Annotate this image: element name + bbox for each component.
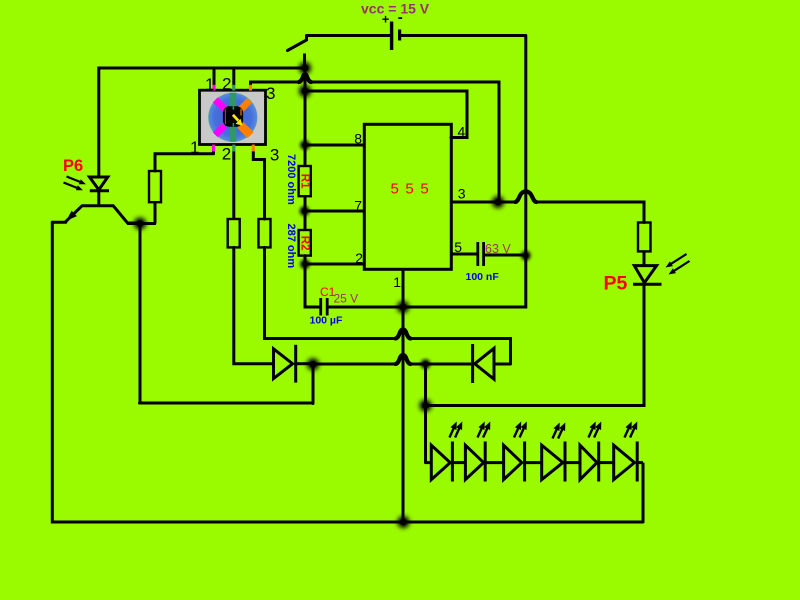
svg-text:3: 3 bbox=[270, 146, 279, 165]
svg-text:1: 1 bbox=[190, 138, 199, 157]
svg-text:3: 3 bbox=[458, 186, 466, 202]
svg-text:R2: R2 bbox=[299, 236, 311, 251]
svg-text:2: 2 bbox=[355, 250, 363, 266]
svg-text:5 5 5: 5 5 5 bbox=[391, 181, 430, 198]
svg-text:P6: P6 bbox=[63, 157, 83, 175]
svg-text:287 ohm: 287 ohm bbox=[285, 224, 297, 269]
svg-text:2: 2 bbox=[222, 145, 231, 164]
svg-text:+: + bbox=[382, 12, 390, 27]
svg-text:7200 ohm: 7200 ohm bbox=[285, 154, 297, 205]
svg-text:2: 2 bbox=[222, 75, 231, 94]
svg-text:100 nF: 100 nF bbox=[466, 271, 500, 283]
svg-text:100 µF: 100 µF bbox=[310, 315, 343, 327]
svg-text:8: 8 bbox=[354, 131, 362, 147]
svg-text:25 V: 25 V bbox=[334, 292, 359, 306]
svg-text:7: 7 bbox=[354, 198, 362, 214]
svg-text:4: 4 bbox=[458, 124, 466, 140]
svg-text:1: 1 bbox=[205, 75, 214, 94]
svg-text:vcc = 15 V: vcc = 15 V bbox=[361, 1, 430, 17]
svg-text:5: 5 bbox=[454, 239, 462, 255]
svg-text:63 V: 63 V bbox=[485, 242, 511, 256]
svg-text:R1: R1 bbox=[299, 174, 311, 189]
svg-text:3: 3 bbox=[266, 84, 275, 103]
svg-text:-: - bbox=[398, 9, 403, 26]
svg-text:P5: P5 bbox=[604, 273, 628, 295]
svg-text:1: 1 bbox=[393, 274, 401, 290]
